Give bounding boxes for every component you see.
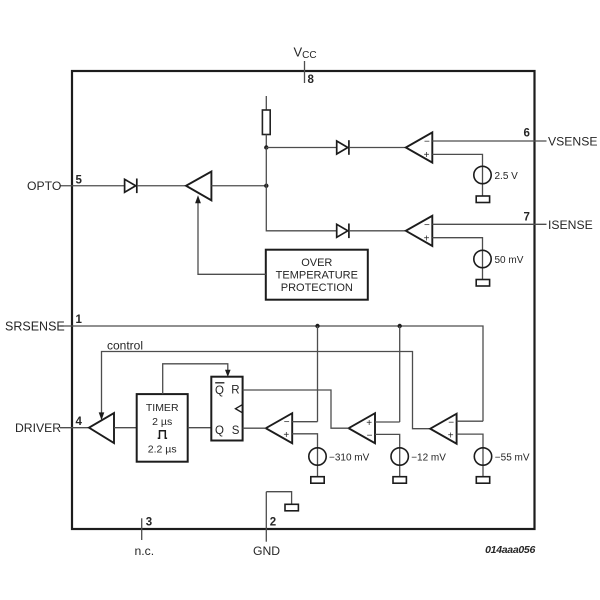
resistor R (pull-up) stub — [265, 96, 267, 110]
wire OTP box to arrow at amp U2 — [198, 202, 266, 274]
svg-text:TIMER: TIMER — [146, 402, 179, 414]
wire pin 2 to ground G6 — [266, 492, 291, 505]
svg-text:014aaa056: 014aaa056 — [485, 544, 535, 556]
svg-text:4: 4 — [76, 416, 83, 428]
svg-text:control: control — [107, 339, 143, 353]
svg-text:−: − — [424, 220, 430, 231]
wire diode D1 to comparator U1 — [350, 147, 406, 149]
comparator U1 (VSENSE) — [406, 132, 433, 162]
svg-text:5: 5 — [76, 175, 83, 187]
wire SRSENSE down to comparator U6 plus — [399, 326, 401, 422]
wire node A down to ISENSE branch — [266, 148, 336, 231]
svg-text:3: 3 — [146, 517, 152, 529]
svg-text:+: + — [283, 430, 289, 441]
monostable pulse symbol — [158, 431, 167, 439]
wire U3 plus input to source V2 — [432, 238, 482, 251]
svg-text:+: + — [366, 418, 372, 429]
arrowhead into driver U4 — [99, 412, 105, 420]
over temperature protection box — [266, 250, 368, 300]
flip-flop labels — [215, 383, 240, 437]
svg-text:TEMPERATURE: TEMPERATURE — [276, 270, 358, 282]
wire U2 output to node B — [211, 185, 266, 187]
diode D2 (OPTO path) — [125, 179, 137, 194]
diode D1 (VSENSE path) — [337, 140, 349, 155]
svg-text:−12 mV: −12 mV — [411, 453, 446, 464]
svg-text:+: + — [448, 430, 454, 441]
svg-text:S: S — [232, 425, 240, 437]
resistor R body — [262, 110, 270, 135]
node A junction dot — [264, 145, 268, 149]
svg-text:−: − — [448, 418, 454, 429]
comparator U7 (-55 mV, control) — [430, 414, 456, 444]
pin 3 stub (n.c.) — [141, 518, 143, 540]
voltage source V5 -55 mV — [474, 448, 530, 465]
svg-text:Q: Q — [215, 425, 224, 437]
svg-text:ISENSE: ISENSE — [548, 218, 593, 232]
IC boundary box — [72, 71, 535, 529]
arrowhead into U2 — [195, 195, 201, 203]
wire diode D2 to amp U2 — [138, 185, 186, 187]
svg-text:−55 mV: −55 mV — [495, 453, 530, 464]
wire U1 plus input to source V1 — [432, 154, 482, 166]
svg-text:−: − — [284, 417, 290, 428]
wire U6 output to flip-flop R — [243, 390, 349, 428]
pin 2 stub (GND) — [265, 492, 267, 542]
voltage source V3 -310 mV — [309, 448, 370, 465]
svg-text:2.2 µs: 2.2 µs — [148, 444, 177, 456]
junction dot at x=317.5 — [315, 324, 319, 328]
voltage source V4 -12 mV — [391, 448, 446, 465]
node B junction dot — [264, 184, 268, 188]
voltage source V1 2.5 V — [474, 166, 518, 196]
svg-text:1: 1 — [76, 314, 83, 326]
flip-flop edge trigger symbol — [236, 405, 243, 413]
wire U5 plus input to source V3 — [292, 434, 317, 477]
svg-text:DRIVER: DRIVER — [15, 421, 61, 435]
svg-text:−310 mV: −310 mV — [329, 453, 370, 464]
control wire from comparator U7 output to driver — [102, 352, 432, 429]
ground G6 — [285, 504, 298, 511]
svg-text:2.5 V: 2.5 V — [495, 171, 519, 182]
OTP box text — [276, 257, 358, 294]
ground G1 — [476, 196, 489, 203]
svg-text:R: R — [231, 385, 239, 397]
svg-text:2: 2 — [270, 517, 276, 529]
svg-text:2 µs: 2 µs — [152, 416, 172, 428]
svg-text:OVER: OVER — [301, 257, 332, 269]
DRIVER pin wire — [60, 427, 89, 429]
svg-text:Q: Q — [215, 385, 224, 397]
svg-text:+: + — [424, 233, 430, 244]
comparator U5 (-310 mV, S input) — [266, 413, 292, 443]
OPTO pin wire — [60, 185, 125, 187]
comparator U3 (ISENSE) — [406, 216, 433, 246]
svg-text:OPTO: OPTO — [27, 179, 61, 193]
svg-text:−: − — [424, 137, 430, 148]
svg-text:+: + — [424, 150, 430, 161]
wire resistor to node A — [265, 135, 267, 148]
ground G3 — [311, 477, 324, 484]
wire U7 minus input branch — [457, 420, 483, 422]
diode D3 (ISENSE path) — [337, 224, 349, 239]
flip-flop box — [211, 377, 242, 441]
wire node A to diode D1 — [266, 147, 336, 149]
wire U5 minus input up branch — [292, 421, 317, 423]
svg-text:−: − — [367, 430, 373, 441]
wire U5 output to flip-flop S — [243, 427, 266, 429]
comparator U6 (-12 mV, R input) — [349, 413, 375, 443]
pin 8 stub (VCC) — [304, 61, 306, 83]
wire U6 minus input to source V4 — [375, 434, 400, 476]
driver U4 triangle — [89, 413, 114, 443]
timer text — [146, 402, 179, 456]
wire SRSENSE down to comparator U5 minus — [317, 326, 319, 422]
ground G5 — [476, 477, 489, 484]
wire U3 minus input to ISENSE pin 7 — [432, 223, 546, 225]
junction dot at x=399.7 — [398, 324, 402, 328]
svg-text:SRSENSE: SRSENSE — [5, 320, 65, 334]
wire U1 minus input to VSENSE pin 6 — [432, 140, 546, 142]
timer box — [137, 394, 188, 462]
wire timer to flip-flop Q — [188, 427, 212, 429]
wire U7 plus input to source V5 — [457, 434, 483, 477]
svg-text:7: 7 — [524, 212, 530, 224]
svg-text:VSENSE: VSENSE — [548, 135, 597, 149]
op-amp U2 (OPTO amplifier) — [186, 172, 211, 201]
svg-text:n.c.: n.c. — [135, 544, 155, 558]
svg-text:6: 6 — [524, 128, 530, 140]
wire timer top to flip-flop set arrow — [163, 364, 228, 394]
wire U6 plus input up branch — [375, 421, 400, 423]
voltage source V2 50 mV — [474, 250, 524, 279]
svg-text:PROTECTION: PROTECTION — [281, 282, 353, 294]
wire diode D3 to comparator U3 — [350, 230, 406, 232]
svg-text:8: 8 — [308, 74, 315, 86]
SRSENSE pin wire with right bend — [60, 326, 483, 421]
ground G4 — [393, 477, 406, 484]
wire driver U4 to timer — [114, 427, 137, 429]
arrowhead into flip-flop top — [225, 370, 231, 377]
svg-text:50 mV: 50 mV — [495, 255, 524, 266]
svg-text:GND: GND — [253, 544, 280, 558]
ground G2 — [476, 280, 489, 287]
